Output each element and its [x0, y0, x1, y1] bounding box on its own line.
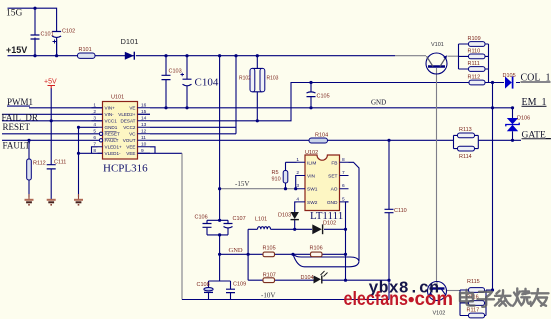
svg-text:10: 10: [141, 142, 147, 148]
capacitor C105 (polarized): [307, 92, 316, 97]
svg-text:8: 8: [342, 157, 345, 163]
wire U101 pin5 RESET: [2, 133, 99, 135]
wire -15V row: [220, 188, 297, 190]
svg-text:GND: GND: [229, 247, 243, 254]
svg-text:1: 1: [296, 157, 299, 163]
ground symbol (left, R112): [25, 194, 34, 205]
watermark elecfans.com: [344, 288, 454, 310]
svg-text:2: 2: [296, 170, 299, 176]
U102 pin numbers: [296, 157, 345, 203]
svg-text:FAULT: FAULT: [105, 138, 119, 143]
wire U102 pin1 ILIM and R5: [286, 162, 297, 188]
svg-text:R5: R5: [272, 170, 279, 176]
svg-text:R111: R111: [468, 61, 480, 67]
svg-text:RESET: RESET: [105, 132, 121, 137]
svg-text:R102: R102: [239, 76, 251, 82]
resistor R104: [309, 138, 328, 143]
wire D103 stem: [295, 202, 297, 229]
wire R115-R117 left bracket: [460, 290, 469, 316]
svg-text:SET: SET: [328, 174, 337, 180]
svg-text:D103: D103: [278, 213, 291, 219]
svg-text:R112: R112: [33, 161, 46, 167]
capacitor C109: [226, 289, 235, 292]
wire U101 pin2: [2, 113, 103, 115]
resistor R113: [458, 133, 475, 138]
wire U101 pin6 FAULT: [2, 139, 99, 141]
wire R102/R103 stems: [252, 56, 262, 121]
svg-text:7: 7: [342, 170, 345, 176]
capacitor C102 (polarized): [52, 28, 61, 56]
U101 pin names: [105, 106, 137, 157]
svg-text:7: 7: [93, 142, 96, 148]
wire VEE drop: [181, 153, 183, 299]
char you: [531, 289, 549, 306]
svg-text:GND: GND: [371, 99, 386, 107]
svg-text:DESAT: DESAT: [121, 119, 136, 124]
wire U101 pin4 GND1 to ground: [79, 127, 98, 197]
svg-text:R110: R110: [468, 49, 481, 55]
svg-text:C105: C105: [317, 94, 330, 100]
svg-text:11: 11: [141, 135, 146, 141]
svg-text:VLED1-: VLED1-: [105, 151, 122, 156]
svg-text:L101: L101: [255, 217, 267, 223]
capacitor C103: [162, 75, 171, 79]
diode D101: [125, 52, 135, 60]
wire +15V drop to VC/VCC2: [150, 56, 236, 134]
wire C104 drop: [186, 56, 188, 108]
capacitor C108: [204, 288, 213, 293]
resistor R109: [469, 42, 486, 47]
wire U101 pin16 VE / GND / EM_1 row: [150, 107, 513, 109]
svg-text:D104: D104: [301, 275, 314, 281]
svg-text:VLED1+: VLED1+: [105, 145, 123, 150]
svg-text:LT1111: LT1111: [310, 210, 343, 222]
wire -10V rail: [182, 299, 389, 301]
svg-text:U102: U102: [305, 150, 318, 156]
svg-text:D101: D101: [121, 37, 139, 46]
wire GND riser C106/C107: [219, 235, 221, 281]
svg-text:VC: VC: [129, 132, 136, 137]
wire C106/C107 tees: [207, 220, 228, 235]
svg-text:U101: U101: [111, 95, 124, 101]
svg-text:HCPL316: HCPL316: [103, 163, 148, 175]
wire V102 to R115 bracket: [447, 290, 461, 292]
svg-text:VCC2: VCC2: [123, 125, 136, 130]
IC U101 HCPL316 body: [103, 102, 138, 160]
svg-text:3: 3: [296, 183, 299, 189]
char fa: [495, 290, 511, 306]
svg-text:elecfans: elecfans: [344, 288, 409, 310]
wire C103 drop: [165, 56, 167, 108]
resistor R101: [78, 53, 96, 58]
resistor R102: [250, 68, 255, 91]
svg-text:C102: C102: [62, 29, 75, 35]
svg-text:+5V: +5V: [44, 79, 57, 86]
svg-text:VIN-: VIN-: [105, 112, 115, 117]
IC U102 pins: [297, 162, 349, 202]
capacitor C104 (polarized): [181, 73, 192, 86]
svg-text:+15V: +15V: [6, 45, 27, 55]
IC U102 LT1111 body: [305, 155, 340, 211]
svg-text:R107: R107: [263, 273, 276, 279]
wire COL_1 segment: [485, 82, 520, 84]
svg-text:910: 910: [272, 177, 281, 183]
resistor R5: [283, 171, 288, 184]
svg-text:4: 4: [296, 196, 299, 202]
svg-text:GND: GND: [327, 200, 338, 206]
svg-text:VEE: VEE: [126, 151, 135, 156]
svg-text:R114: R114: [459, 154, 472, 160]
svg-text:VIN+: VIN+: [105, 106, 116, 111]
svg-text:-10V: -10V: [261, 291, 275, 299]
svg-text:1: 1: [93, 103, 96, 109]
svg-text:D106: D106: [517, 116, 530, 122]
wire U102 pin8 FB path: [293, 162, 359, 266]
transistor V101: [426, 53, 447, 74]
wire U101 pin14 DESAT to COL: [150, 83, 469, 121]
wire V101 rail segment: [395, 55, 426, 57]
svg-text:V101: V101: [431, 42, 444, 48]
svg-text:C108: C108: [197, 282, 210, 288]
svg-text:C111: C111: [54, 160, 66, 166]
wire U102 pin5 GND vertical: [346, 202, 349, 280]
IC U101 pins: [92, 108, 151, 154]
resistor R106: [311, 252, 323, 257]
wire ISG top net: [8, 8, 57, 35]
svg-text:com: com: [415, 288, 454, 310]
svg-text:R113: R113: [459, 127, 472, 133]
svg-text:R104: R104: [315, 133, 328, 139]
svg-text:SW1: SW1: [307, 187, 318, 193]
resistor R105: [263, 252, 275, 257]
svg-text:EM_1: EM_1: [522, 97, 547, 108]
inductor L101: [258, 227, 271, 230]
svg-text:8: 8: [93, 148, 96, 154]
wire U101 pin1 PWM1: [7, 106, 103, 108]
svg-text:D105: D105: [503, 73, 516, 79]
resistor R114: [458, 146, 475, 151]
svg-text:VIN: VIN: [307, 174, 316, 180]
wire +15V drop to C106/C107: [219, 56, 221, 221]
diode D105: [505, 76, 513, 88]
svg-text:-15V: -15V: [235, 180, 249, 188]
resistor R116: [469, 301, 485, 306]
resistor R107: [263, 278, 275, 283]
wire GND row: [220, 253, 346, 255]
wire C102 stem: [56, 40, 58, 56]
wire C101 stem: [34, 38, 36, 56]
wire R109-R111 left bracket: [459, 44, 469, 69]
svg-text:ILIM: ILIM: [307, 160, 316, 166]
wire +5V drop: [50, 88, 52, 174]
wire D106 branch: [512, 108, 514, 141]
svg-text:15: 15: [141, 109, 147, 115]
svg-text:SW2: SW2: [307, 200, 318, 206]
svg-text:6: 6: [342, 183, 345, 189]
svg-text:R105: R105: [263, 246, 276, 252]
svg-text:2: 2: [93, 109, 96, 115]
resistor R110: [469, 54, 486, 59]
svg-text:5: 5: [342, 196, 345, 202]
diode D103: [291, 212, 299, 220]
svg-text:6: 6: [93, 135, 96, 141]
svg-text:C109: C109: [233, 281, 246, 287]
svg-text:FAULT: FAULT: [3, 140, 31, 150]
svg-text:V102: V102: [433, 311, 446, 317]
U102 pin names: [307, 160, 338, 206]
wire U101 pins9/10 VEE: [138, 147, 183, 154]
svg-text:15G: 15G: [6, 9, 23, 19]
svg-text:RESET: RESET: [3, 122, 31, 132]
svg-text:12: 12: [141, 129, 147, 135]
svg-text:4: 4: [93, 122, 96, 128]
svg-text:C107: C107: [233, 216, 246, 222]
diode D102: [312, 224, 322, 234]
svg-text:VE: VE: [129, 106, 135, 111]
char dian: [460, 290, 475, 306]
wire R107/D104 row: [248, 279, 389, 281]
resistor R108: [469, 80, 485, 85]
wire U101 pin11 VOUT / GATE row: [150, 139, 521, 141]
wire U102 pin2 elbow: [295, 176, 298, 189]
svg-text:C106: C106: [195, 215, 208, 221]
char shao: [513, 289, 531, 306]
resistor R115: [469, 288, 485, 293]
power +5V symbol: [48, 86, 56, 89]
char zi: [478, 292, 495, 307]
wire +15V rail: [8, 55, 396, 57]
svg-text:R115: R115: [467, 279, 480, 285]
wire C108/C109 stems: [209, 281, 231, 300]
resistor R112: [27, 159, 32, 180]
diode D106 (bidirectional): [506, 118, 519, 131]
svg-text:R103: R103: [267, 76, 279, 82]
svg-text:R106: R106: [310, 246, 323, 252]
svg-text:13: 13: [141, 122, 147, 128]
svg-text:GND1: GND1: [105, 125, 118, 130]
resistor R103: [260, 68, 265, 91]
svg-text:5: 5: [93, 129, 96, 135]
wire R115-R117 right bracket: [485, 290, 493, 316]
wire R113/R114 brackets: [454, 135, 479, 148]
svg-text:R101: R101: [79, 47, 92, 53]
wire U101 pin15 stub: [138, 113, 151, 115]
svg-text:C103: C103: [169, 69, 182, 75]
svg-text:C101: C101: [41, 32, 54, 38]
wire C110 drop: [388, 140, 390, 299]
svg-text:PWM1: PWM1: [7, 97, 33, 107]
wire C105 branch: [310, 83, 312, 108]
svg-text:9: 9: [141, 148, 144, 154]
capacitor C111: [47, 165, 56, 169]
capacitor C110: [385, 209, 394, 212]
svg-text:FAIL_DR: FAIL_DR: [2, 112, 38, 122]
svg-text:FB: FB: [331, 160, 337, 166]
ground symbol (C111): [47, 174, 56, 205]
svg-text:AO: AO: [331, 187, 338, 193]
svg-text:COL_1: COL_1: [521, 73, 551, 84]
wire R109-R111 right bracket: [485, 44, 489, 83]
ground symbol (U101 GND1): [74, 194, 83, 205]
svg-text:GATE_1: GATE_1: [522, 130, 551, 140]
wire V101 emitter to bracket: [448, 55, 459, 57]
resistor R111: [469, 67, 486, 72]
wire right column vertical: [492, 83, 494, 291]
svg-text:14: 14: [141, 116, 147, 122]
svg-text:VEE: VEE: [126, 145, 135, 150]
wire R112 stem: [28, 140, 30, 197]
svg-text:R117: R117: [467, 308, 480, 314]
diode D104 (with arrows): [314, 271, 328, 284]
svg-text:R112: R112: [468, 75, 481, 81]
svg-text:16: 16: [141, 103, 147, 109]
wire V101 to V102 vertical: [436, 68, 438, 282]
watermark ybx8.cn: [369, 279, 440, 298]
svg-text:VOUT: VOUT: [123, 138, 136, 143]
capacitor C107 (polarized): [224, 224, 233, 229]
watermark Chinese characters (drawn strokes): [460, 289, 549, 307]
wire L101/D102 row: [248, 229, 345, 280]
svg-text:C104: C104: [195, 77, 219, 89]
resistor R117: [469, 313, 485, 318]
capacitor C106: [203, 224, 212, 228]
capacitor C101: [31, 35, 40, 56]
svg-text:VLED2+: VLED2+: [118, 112, 136, 117]
U101 pin numbers: [93, 103, 146, 155]
svg-text:R109: R109: [468, 36, 481, 42]
transistor V102: [428, 282, 447, 301]
svg-text:VCC1: VCC1: [105, 119, 118, 124]
svg-text:3: 3: [93, 116, 96, 122]
wire U101 pin3 FAIL_DR: [2, 120, 103, 122]
svg-text:C110: C110: [394, 208, 407, 214]
wire U101 pins7/8 VLED1: [79, 147, 103, 154]
